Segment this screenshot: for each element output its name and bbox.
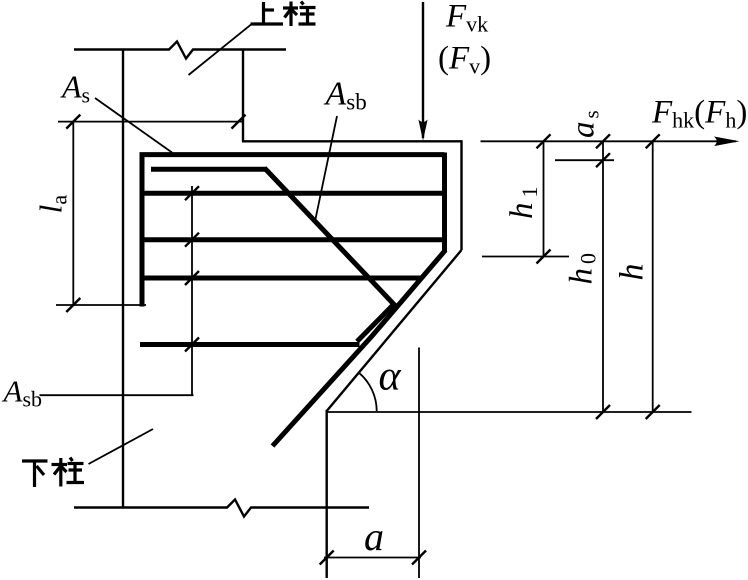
A_sb bottom leader vertical xyxy=(191,186,193,395)
a dimension line xyxy=(324,557,421,559)
tick l_a bottom xyxy=(66,298,80,312)
rebar A_sb horizontal part xyxy=(151,167,267,172)
lower column right edge xyxy=(326,410,328,578)
upper column top break line xyxy=(74,42,286,59)
char shang xyxy=(262,2,265,24)
corbel sloped edge xyxy=(327,250,462,411)
a dimension extension line at load point xyxy=(418,348,420,579)
char zhu wood radical xyxy=(283,6,298,9)
leader for label A_sb top xyxy=(316,116,338,219)
char zhu right part xyxy=(70,458,73,462)
tick h0 top xyxy=(596,134,610,148)
corbel outer right edge xyxy=(460,140,462,250)
A_sb bottom leader horizontal xyxy=(40,394,194,396)
rebar A_sb diagonal xyxy=(265,168,396,306)
h1 dimension line xyxy=(543,141,545,256)
column left edge xyxy=(122,50,124,508)
F_vk arrowhead xyxy=(418,120,427,141)
rebar wrap slope segment running into lower column xyxy=(273,250,446,446)
tick a_s bottom xyxy=(596,153,610,167)
F_hk force arrow line with top dimension line xyxy=(481,140,737,142)
tick on S1 xyxy=(185,186,199,200)
l_a dimension line xyxy=(72,122,74,305)
tick h1 top xyxy=(537,134,551,148)
rebar wrap right vertical xyxy=(442,153,447,253)
rebar A_sb lower bend segment along slope xyxy=(357,304,394,342)
h dimension line xyxy=(652,141,654,412)
angle alpha arc xyxy=(359,373,377,411)
tick a right xyxy=(412,551,426,565)
char xia xyxy=(22,459,48,462)
label shang zhu (upper column) drawn strokes xyxy=(251,2,316,27)
tick a left xyxy=(320,551,334,565)
svg-text:a: a xyxy=(364,514,384,559)
char zhu wood radical xyxy=(52,463,68,466)
lower column bottom break line xyxy=(74,500,369,517)
leader for label shang zhu xyxy=(189,25,252,75)
tick at column face on l_a extension xyxy=(232,115,246,129)
stirrup S1 xyxy=(140,191,445,196)
rebar A_s anchorage vertical leg xyxy=(140,153,145,307)
tick h1 bottom xyxy=(537,250,551,264)
bottom extension line at corbel root xyxy=(327,411,692,413)
label xia zhu (lower column) drawn strokes xyxy=(22,458,84,488)
l_a bottom extension line xyxy=(56,304,146,306)
h1 bottom extension line xyxy=(482,256,569,258)
tick on S2 xyxy=(185,233,199,247)
tick l_a top xyxy=(66,115,80,129)
upper column right edge xyxy=(242,50,244,142)
stirrup S2 xyxy=(140,237,445,242)
stirrup S3 xyxy=(140,276,422,281)
F_hk arrowhead xyxy=(714,137,740,147)
svg-text:(Fv): (Fv) xyxy=(438,41,491,79)
tick h top xyxy=(646,134,660,148)
a_s extension line xyxy=(555,159,614,161)
leader for label xia zhu xyxy=(89,429,154,464)
tick h bottom xyxy=(646,405,660,419)
leader for label A_s xyxy=(95,98,172,153)
l_a top extension line xyxy=(58,121,244,123)
tick h0 bottom xyxy=(596,405,610,419)
char zhu right part xyxy=(301,2,304,5)
corbel top edge xyxy=(242,140,462,142)
rebar A_s top bar xyxy=(140,152,445,157)
F_vk force arrow line xyxy=(422,2,424,138)
tick on S3 xyxy=(185,271,199,285)
stirrup S4 xyxy=(140,342,360,347)
svg-text:h: h xyxy=(614,264,651,281)
svg-text:α: α xyxy=(379,354,402,400)
tick on S4 xyxy=(185,338,199,352)
h0 dimension line xyxy=(602,141,604,412)
